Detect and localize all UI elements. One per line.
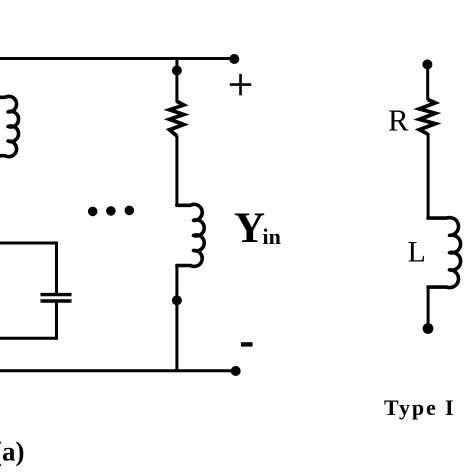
node junction (bottom of middle branch) [172, 295, 182, 305]
wire bottom rail [0, 369, 234, 372]
node + terminal (top right) [229, 54, 239, 64]
wire middle branch upper [175, 59, 178, 103]
ellipsis dots [88, 207, 98, 217]
wire [427, 133, 430, 220]
inductor L1 (left, cut off at edge) [0, 96, 19, 156]
wire middle branch lower [175, 266, 178, 371]
svg-text:Type I: Type I [384, 395, 456, 420]
node junction (top of middle branch) [172, 66, 182, 76]
svg-text:(a): (a) [0, 437, 24, 467]
wire [427, 286, 430, 329]
svg-text:Y: Y [234, 205, 265, 252]
plus sign [230, 83, 251, 86]
resistor R2 (middle branch) [170, 101, 184, 136]
resistor R (right) [419, 100, 435, 135]
svg-text:in: in [263, 224, 281, 249]
minus sign [241, 342, 253, 346]
svg-text:R: R [388, 103, 409, 138]
inductor L (right) [428, 218, 460, 288]
wire top rail [0, 57, 233, 60]
wire [426, 64, 429, 100]
wire middle branch mid [175, 136, 178, 207]
node terminal (bottom) [423, 323, 434, 334]
inductor L2 (middle branch) [177, 204, 204, 266]
node - terminal (bottom right) [231, 366, 241, 376]
svg-text:L: L [408, 235, 426, 268]
node terminal (top) [422, 59, 432, 69]
capacitor C1 (left loop, cut off at edge) [0, 243, 57, 293]
